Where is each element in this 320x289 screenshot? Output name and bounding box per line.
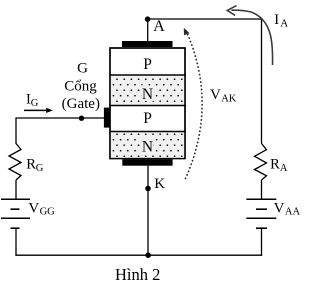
resistor RG xyxy=(9,144,21,181)
current IA arrow xyxy=(232,10,273,65)
anode electrode bar xyxy=(122,41,173,47)
svg-text:N: N xyxy=(142,86,153,103)
svg-text:A: A xyxy=(153,18,165,35)
gate wire xyxy=(16,117,105,119)
svg-text:R: R xyxy=(26,157,36,173)
cathode wire K xyxy=(147,166,149,256)
svg-text:G: G xyxy=(77,61,88,77)
wire VAA to bottom xyxy=(261,228,263,256)
wire from node A down to anode electrode xyxy=(147,19,149,42)
wire VGG to bottom xyxy=(15,228,17,256)
svg-text:A: A xyxy=(280,163,288,174)
junction line N1/P2 xyxy=(109,105,186,107)
svg-text:V: V xyxy=(210,87,221,103)
N layer 1 fill xyxy=(111,76,184,105)
resistor RA xyxy=(255,144,267,181)
node A xyxy=(145,16,151,22)
svg-text:P: P xyxy=(143,56,152,73)
svg-text:Cổng: Cổng xyxy=(64,78,97,94)
gate junction dot xyxy=(79,116,84,121)
wire top from node A to right corner xyxy=(148,19,262,144)
svg-text:G: G xyxy=(31,98,39,109)
svg-text:V: V xyxy=(274,200,285,216)
pnpn stack body xyxy=(110,48,185,159)
svg-text:R: R xyxy=(270,156,280,172)
gate contact tab xyxy=(104,108,110,128)
bottom junction node xyxy=(145,252,151,258)
wire left vertical down to RG xyxy=(15,118,17,145)
svg-text:G: G xyxy=(36,163,44,174)
svg-text:N: N xyxy=(142,139,153,156)
cathode electrode bar xyxy=(122,159,172,165)
svg-text:Hình 2: Hình 2 xyxy=(115,265,160,284)
svg-text:K: K xyxy=(154,176,165,192)
wire RG to VGG xyxy=(15,180,17,199)
bottom wire xyxy=(15,254,262,256)
svg-text:P: P xyxy=(143,110,152,127)
junction line P1/N1 xyxy=(109,74,186,76)
current IG arrow xyxy=(24,109,48,111)
VAK dashed arc xyxy=(186,31,203,179)
svg-text:I: I xyxy=(274,12,279,28)
svg-text:A: A xyxy=(280,18,288,30)
wire RA to VAA xyxy=(261,180,263,199)
VAK arrowhead xyxy=(184,28,190,35)
svg-text:(Gate): (Gate) xyxy=(62,96,100,112)
junction line P2/N2 xyxy=(109,131,186,133)
svg-text:GG: GG xyxy=(40,207,56,218)
node K xyxy=(145,186,151,192)
svg-text:AA: AA xyxy=(285,207,301,218)
battery VAA xyxy=(246,198,276,200)
battery VGG xyxy=(1,198,30,200)
svg-text:V: V xyxy=(28,200,39,216)
svg-text:AK: AK xyxy=(221,94,237,105)
N layer 2 fill xyxy=(111,132,184,158)
